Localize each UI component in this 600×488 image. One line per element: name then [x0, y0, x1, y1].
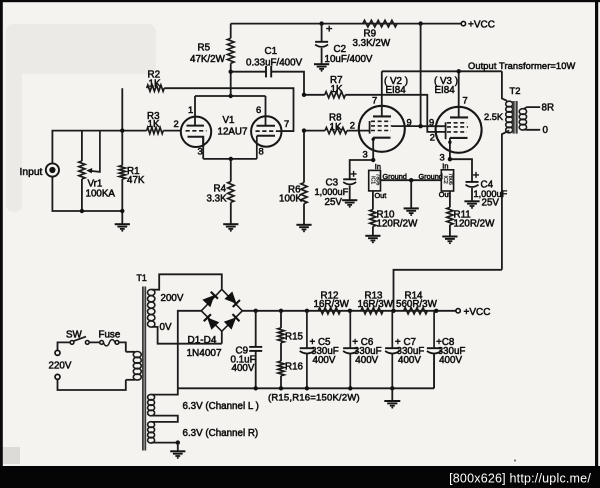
- terminal 220V top: [55, 350, 60, 355]
- wire bridge right to rail: [242, 310, 456, 312]
- svg-text:400V: 400V: [439, 355, 462, 366]
- V3 pin7 anode lead: [458, 71, 460, 117]
- PSU ground rail: [178, 354, 434, 389]
- resistor R15: [278, 328, 284, 343]
- T2 secondary lead 8R: [524, 107, 541, 109]
- V3 cathode lead: [449, 138, 451, 159]
- triode V1a envelope: [181, 117, 211, 147]
- wire R1 top to R2 wire: [121, 88, 123, 165]
- wire R7 right to V3 grid: [345, 95, 445, 132]
- capacitor C8: [427, 311, 441, 389]
- capacitor C4: [466, 182, 479, 187]
- svg-text:400V: 400V: [398, 355, 421, 366]
- junction rail C6: [348, 309, 352, 313]
- svg-text:1K: 1K: [148, 119, 160, 130]
- triode V1b envelope: [251, 116, 281, 146]
- svg-text:0: 0: [543, 125, 549, 136]
- svg-text:EI84: EI84: [386, 85, 407, 96]
- svg-text:120R/2W: 120R/2W: [377, 219, 419, 230]
- V3 grid dashes: [447, 123, 468, 132]
- V2 grid dashes: [371, 121, 392, 130]
- resistor R13: [361, 308, 383, 314]
- svg-text:25V: 25V: [482, 198, 500, 209]
- V2 screen out wire: [392, 125, 421, 127]
- ground PSU: [384, 401, 400, 409]
- wire heater link: [152, 416, 178, 422]
- V2 plate bar: [373, 115, 391, 117]
- capacitor C1: [266, 66, 271, 77]
- resistor R3: [147, 128, 164, 134]
- junction heater ground: [176, 440, 180, 444]
- wire U1 out: [372, 191, 374, 210]
- terminal +VCC top: [461, 21, 465, 25]
- ground under C2: [314, 64, 329, 72]
- svg-text:6: 6: [256, 104, 261, 115]
- junction rail R15: [279, 309, 283, 313]
- resistor R10: [370, 210, 376, 227]
- V2 cathode lead: [372, 138, 374, 160]
- wire R10 bottom: [372, 227, 374, 236]
- junction R7 tap: [302, 93, 306, 97]
- svg-text:120R/2W: 120R/2W: [454, 218, 496, 229]
- V2 cathode bar: [373, 137, 390, 139]
- svg-text:25V: 25V: [325, 197, 343, 208]
- svg-text:7: 7: [463, 94, 468, 105]
- svg-text:0.33uF/400V: 0.33uF/400V: [246, 57, 303, 68]
- wire R8 left: [304, 130, 325, 132]
- svg-text:+VCC: +VCC: [464, 307, 491, 318]
- transformer T2 primary: [506, 101, 513, 133]
- pentode V2 envelope: [359, 106, 405, 152]
- V1a grid dashes: [186, 130, 207, 132]
- potentiometer Vr1: [79, 161, 85, 179]
- svg-text:9: 9: [429, 116, 434, 127]
- svg-text:0V: 0V: [160, 322, 172, 333]
- V1a plate bar: [187, 125, 205, 127]
- svg-text:10uF/400V: 10uF/400V: [325, 54, 373, 65]
- svg-text:8R: 8R: [542, 103, 555, 114]
- svg-text:16R/3W: 16R/3W: [358, 299, 394, 310]
- bridge rectifier D1-D4: [201, 289, 242, 331]
- svg-text:T1: T1: [137, 273, 147, 283]
- V1a cathode: [188, 137, 204, 147]
- svg-text:Out: Out: [375, 191, 387, 200]
- wire C2 to ground: [321, 48, 323, 64]
- wire screen drop: [420, 24, 422, 127]
- wire jack bottom: [52, 177, 122, 211]
- wire C3 ground: [349, 186, 351, 200]
- V1b cathode: [257, 135, 275, 137]
- wire jack top to grid wire: [52, 131, 146, 164]
- wire R7 left: [304, 94, 325, 96]
- T2 primary lead top: [502, 71, 507, 101]
- transformer T1 secondary 200V: [148, 289, 155, 327]
- svg-text:Output Transformer=10W: Output Transformer=10W: [468, 61, 575, 71]
- Vr1 wiper arrow: [86, 131, 100, 174]
- junction R8 tap: [302, 128, 306, 132]
- svg-text:16R/3W: 16R/3W: [314, 299, 350, 310]
- top VCC wire: [231, 23, 462, 25]
- wire R1 bottom: [121, 179, 123, 224]
- junction rail C8: [434, 309, 438, 313]
- C4 plus sign: [473, 172, 479, 178]
- wire mains top: [58, 342, 126, 351]
- capacitor C2: [315, 42, 328, 47]
- resistor R8: [325, 128, 347, 134]
- wire Vr1 bottom: [81, 179, 83, 211]
- junction V2 cathode: [371, 158, 375, 162]
- pentode V3 envelope: [436, 107, 482, 153]
- T2 secondary lead 0: [524, 129, 541, 131]
- ground under R11: [442, 237, 457, 245]
- wire R6 bottom: [303, 204, 305, 224]
- V1 cathode bottom wire: [203, 158, 257, 160]
- C2 plus sign: [326, 26, 332, 32]
- svg-text:12AU7: 12AU7: [218, 126, 248, 137]
- svg-text:(R15,R16=150K/2W): (R15,R16=150K/2W): [268, 393, 360, 404]
- svg-text:3.3K/2W: 3.3K/2W: [353, 38, 391, 49]
- svg-text:Out: Out: [439, 190, 451, 199]
- V2 cathode corner dot: [372, 138, 375, 141]
- V2 grid bracket: [369, 121, 371, 134]
- anode wire to transformer: [382, 70, 502, 72]
- wire R2 to pin7: [164, 88, 293, 131]
- resistor R9: [363, 20, 397, 27]
- V3 plate bar: [450, 116, 468, 118]
- wire R11 bottom: [449, 225, 451, 236]
- wire C1 left: [231, 71, 266, 73]
- wire R8 right: [347, 130, 370, 132]
- svg-text:R15: R15: [285, 331, 304, 342]
- svg-text:EI84: EI84: [435, 85, 456, 96]
- svg-text:[800x626] http://uplc.me/: [800x626] http://uplc.me/: [449, 472, 591, 486]
- junction gnd C6: [348, 386, 352, 390]
- svg-text:2: 2: [174, 118, 179, 129]
- V1 plates top wire: [195, 95, 266, 97]
- wire heater R bottom: [152, 442, 178, 444]
- V3 screen wire: [421, 125, 446, 127]
- resistor R7: [325, 92, 346, 98]
- svg-text:8: 8: [259, 146, 264, 157]
- capacitor C6: [343, 311, 357, 389]
- svg-text:3: 3: [198, 146, 203, 157]
- svg-text:7: 7: [372, 95, 377, 106]
- svg-text:In: In: [442, 162, 448, 171]
- wire ground stem: [410, 180, 412, 208]
- wire R5 top: [230, 24, 232, 39]
- scan shadow blobs: [3, 24, 156, 464]
- V1b grid dashes: [256, 130, 278, 132]
- V1a pin1 lead: [194, 96, 196, 126]
- svg-text:3: 3: [363, 148, 368, 159]
- svg-text:7: 7: [284, 118, 289, 129]
- ground under R10: [365, 236, 380, 244]
- svg-text:+VCC: +VCC: [468, 20, 495, 31]
- wire bridge bottom: [221, 331, 223, 343]
- input jack J1: [46, 163, 59, 176]
- resistor R14: [404, 308, 428, 314]
- junction V3 cathode: [448, 157, 452, 161]
- capacitor C3: [343, 179, 356, 184]
- svg-text:1K: 1K: [331, 84, 343, 95]
- svg-text:Ground: Ground: [419, 172, 443, 181]
- svg-text:3.3K: 3.3K: [207, 193, 228, 204]
- svg-text:1K: 1K: [330, 122, 342, 133]
- ground under C3: [342, 200, 357, 208]
- T2 primary lead bottom: [502, 131, 509, 270]
- junction rail C5: [305, 309, 309, 313]
- svg-text:100K: 100K: [279, 194, 302, 205]
- svg-text:In: In: [375, 162, 381, 171]
- junction gnd C5: [305, 386, 309, 390]
- V1b pin6 lead: [265, 96, 267, 126]
- transformer T1 heater winding L: [148, 394, 155, 415]
- svg-text:7806: 7806: [375, 174, 381, 186]
- speck: [514, 459, 516, 461]
- svg-text:2.5K: 2.5K: [484, 112, 504, 122]
- wire C1 right: [271, 72, 304, 95]
- ground under regulators: [404, 208, 419, 216]
- capacitor C2 lead: [321, 24, 323, 42]
- transformer T2 secondary: [519, 109, 526, 130]
- wire V3 cathode node: [450, 159, 472, 182]
- svg-text:Fuse: Fuse: [99, 330, 121, 341]
- V1b cathode lead: [256, 136, 258, 159]
- C3 plus sign: [351, 171, 357, 177]
- capacitor C9 leads: [255, 311, 257, 389]
- svg-text:R16: R16: [285, 361, 304, 372]
- svg-text:D1-D4: D1-D4: [188, 335, 217, 346]
- svg-text:47K/2W: 47K/2W: [190, 54, 226, 65]
- wire 0V tap: [152, 327, 222, 344]
- svg-text:V1: V1: [223, 115, 235, 126]
- wire R5 bottom: [230, 63, 232, 96]
- resistor R16: [278, 361, 284, 376]
- junction screen tap: [418, 21, 422, 25]
- svg-text:6.3V (Channel R): 6.3V (Channel R): [183, 428, 259, 439]
- junction R1 bottom: [120, 209, 124, 213]
- switch SW: [70, 337, 89, 345]
- junction R5 C1: [229, 70, 233, 74]
- T1 primary top lead: [126, 351, 135, 353]
- capacitor C5: [300, 311, 314, 389]
- junction Vr1 bottom: [80, 209, 84, 213]
- wire mains bottom: [58, 379, 126, 390]
- V1b grid out wire: [277, 130, 294, 132]
- svg-text:Input: Input: [20, 167, 43, 178]
- wire U1 ground: [381, 179, 442, 181]
- svg-text:47K: 47K: [127, 175, 145, 186]
- junction screens: [418, 124, 422, 128]
- regulator IC1 7806: [369, 170, 381, 191]
- svg-text:100KA: 100KA: [86, 188, 116, 199]
- wire R3 to grid: [163, 130, 181, 132]
- junction gnd R16: [279, 386, 283, 390]
- wire bridge left: [178, 311, 202, 389]
- wire R15 R16 link: [280, 311, 282, 389]
- svg-text:560R/3W: 560R/3W: [396, 299, 438, 310]
- wire R4 top: [230, 159, 232, 182]
- fuse F1: [100, 340, 119, 346]
- svg-text:R5: R5: [198, 42, 211, 53]
- resistor R5: [227, 38, 234, 63]
- wire heater ground stem: [177, 443, 179, 451]
- svg-text:1K: 1K: [149, 78, 161, 89]
- V3 cathode bar: [450, 137, 468, 139]
- wire R4 bottom: [230, 202, 232, 223]
- ground under R1: [115, 224, 130, 232]
- T2 core: [514, 101, 517, 134]
- junction plates R5: [229, 94, 233, 98]
- svg-text:1: 1: [188, 104, 193, 115]
- V3 grid bracket: [445, 122, 447, 139]
- svg-text:1N4007: 1N4007: [187, 348, 222, 359]
- wire U2 out: [449, 191, 451, 207]
- svg-text:200V: 200V: [161, 293, 184, 304]
- T1 core: [143, 287, 145, 451]
- svg-text:7806: 7806: [447, 173, 453, 185]
- svg-text:2: 2: [430, 132, 435, 143]
- junction gnd C7: [390, 386, 394, 390]
- resistor R12: [318, 308, 340, 314]
- watermark bar: [0, 466, 600, 488]
- resistor R6: [301, 183, 307, 204]
- resistor R1: [119, 166, 125, 180]
- terminal 220V bottom: [55, 374, 60, 379]
- terminal +VCC bottom: [456, 309, 460, 313]
- resistor R11: [447, 207, 453, 224]
- junction gnd C9: [254, 386, 258, 390]
- junction rail C9: [254, 309, 258, 313]
- svg-text:400V: 400V: [313, 355, 336, 366]
- svg-text:2: 2: [350, 119, 355, 130]
- junction V3 anode: [457, 69, 461, 73]
- ground under C4: [464, 201, 479, 209]
- ground under R6: [296, 225, 311, 233]
- T2 to PSU wire: [394, 270, 502, 309]
- resistor R2: [147, 85, 165, 91]
- junction cathodes R4: [229, 157, 233, 161]
- svg-text:400V: 400V: [355, 355, 378, 366]
- T1 primary bottom lead: [126, 379, 135, 381]
- svg-text:C1: C1: [265, 46, 278, 57]
- junction rail C7: [391, 309, 395, 313]
- V1b plate bar: [257, 125, 276, 127]
- junction R1 grid wire: [120, 128, 124, 132]
- ground under R4: [223, 224, 238, 232]
- V2 pin7 anode lead: [381, 71, 383, 116]
- svg-text:400V: 400V: [232, 363, 255, 374]
- junction regulator grounds: [409, 178, 413, 182]
- wire 200V tap: [152, 274, 222, 289]
- regulator IC2 7806: [441, 170, 453, 191]
- V1a cathode lead: [202, 137, 204, 159]
- wire V2 cathode node: [350, 160, 374, 179]
- V3 cathode corner dot: [448, 141, 451, 144]
- svg-text:9: 9: [407, 116, 412, 127]
- ground under heater windings: [170, 451, 185, 459]
- resistor R4: [228, 182, 234, 203]
- svg-text:220V: 220V: [49, 361, 72, 372]
- junction C2 tap: [319, 21, 323, 25]
- svg-text:T2: T2: [510, 85, 521, 96]
- capacitor C9: [249, 347, 262, 351]
- wire C4 ground: [471, 188, 473, 201]
- transformer T1 primary: [133, 352, 141, 381]
- wire R6 top: [303, 131, 305, 183]
- svg-text:6.3V (Channel L ): 6.3V (Channel L ): [183, 401, 259, 412]
- PSU ground stem: [391, 388, 393, 400]
- wire heater L top: [152, 388, 178, 394]
- wire Vr1 top: [81, 131, 83, 161]
- transformer T1 heater winding R: [148, 422, 155, 443]
- svg-text:1,000uF: 1,000uF: [315, 187, 349, 197]
- capacitor C7: [385, 311, 399, 389]
